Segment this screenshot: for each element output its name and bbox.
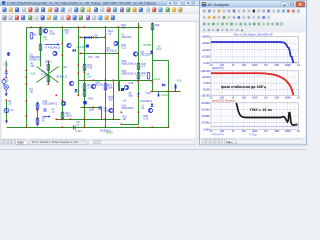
plot2 phase frame: [211, 71, 299, 96]
resistor R26: [151, 24, 154, 31]
svg-text:2SA1943: 2SA1943: [122, 36, 133, 39]
wire feedback column: [48, 62, 50, 85]
diode D2: [89, 36, 92, 39]
junction 59: [138, 127, 140, 129]
source V2: [4, 85, 8, 89]
diode D1: [84, 36, 87, 39]
junction 9: [26, 70, 28, 72]
wire input pair column: [78, 28, 80, 96]
plot2 phase curve: [211, 73, 293, 95]
wire mid bus: [79, 80, 153, 82]
plot1 gain y axis labels: [202, 35, 211, 66]
junction 36: [138, 96, 140, 98]
wire input loop: [37, 102, 39, 127]
transistor Q16: [148, 108, 152, 112]
junction 37: [152, 53, 154, 55]
junction 58: [26, 127, 28, 129]
junction 22: [84, 80, 86, 82]
resistor R8: [36, 118, 39, 125]
junction 11: [26, 84, 28, 86]
wire ground bottom rail: [7, 127, 169, 129]
AC toolbar rows: [200, 8, 306, 33]
junction 29: [105, 119, 107, 121]
svg-text:2SA1943LC: 2SA1943LC: [122, 107, 135, 110]
junction 55: [93, 80, 95, 82]
junction 41: [168, 91, 170, 93]
resistor R6: [47, 64, 50, 71]
plot3 group delay grid: [211, 103, 299, 130]
svg-text:220: 220: [65, 32, 70, 35]
svg-text:0A: 0A: [42, 120, 45, 123]
junction 1: [31, 27, 33, 29]
svg-text:100: 100: [109, 99, 114, 102]
capacitor C7: [44, 108, 46, 112]
svg-text:20.000n: 20.000n: [202, 121, 211, 125]
svg-text:F (Гц): F (Гц): [250, 132, 257, 136]
app title bar: [0, 0, 307, 6]
junction 2: [40, 27, 42, 29]
capacitor C9: [73, 125, 75, 129]
transistor Q9: [133, 52, 137, 56]
plot1 gain frame: [211, 37, 299, 64]
svg-text:0.06: 0.06: [177, 80, 182, 83]
junction 10: [26, 77, 28, 79]
junction 42: [80, 37, 82, 39]
plot3 delay curve: [236, 103, 297, 125]
wire +35V right drop: [152, 23, 154, 92]
junction 46: [56, 119, 58, 121]
svg-text:MJE15034_G: MJE15034_G: [122, 63, 137, 66]
junction 26: [105, 37, 107, 39]
plot1 gain x axis labels: [210, 63, 301, 67]
plot3 group delay x axis labels: [210, 129, 301, 133]
svg-text:10K: 10K: [242, 63, 247, 67]
transistor Q2: [67, 43, 71, 47]
svg-text:C64-DB W: C64-DB W: [141, 100, 153, 103]
transistor Q3: [43, 29, 47, 33]
junction 35: [138, 81, 140, 83]
svg-text:BD139: BD139: [96, 84, 104, 87]
junction 21: [84, 72, 86, 74]
svg-text:40.000n: 40.000n: [202, 114, 211, 118]
svg-text:0.65: 0.65: [31, 73, 36, 76]
transistor Q15: [124, 85, 128, 89]
junction 52: [62, 127, 64, 129]
transistor Q10: [61, 101, 65, 105]
app window background: [0, 0, 307, 150]
svg-text:80.000n: 80.000n: [202, 101, 211, 105]
capacitor C8: [83, 101, 86, 104]
junction 56: [56, 95, 58, 97]
svg-text:+180.000: +180.000: [200, 69, 210, 73]
plot1 zero axis: [211, 61, 299, 63]
node marker phi: [7, 52, 10, 56]
svg-text:2SC5200: 2SC5200: [141, 54, 152, 57]
resistor R7: [47, 76, 50, 83]
source V3: [4, 108, 9, 113]
svg-text:db(v(OUT)): db(v(OUT)): [212, 66, 224, 70]
AC tab bar: [201, 138, 306, 144]
junction 44: [80, 53, 82, 55]
svg-text:ph(v(OUT)) (Degrees): ph(v(OUT)) (Degrees): [212, 100, 236, 103]
junction 38: [152, 81, 154, 83]
current probe arrow: [137, 93, 139, 96]
diode D7: [174, 85, 177, 88]
transistor Q5: [114, 41, 118, 45]
wire mid column B: [105, 28, 107, 128]
junction 18: [78, 65, 80, 67]
output arrow: [43, 116, 49, 118]
junction 50: [37, 118, 39, 120]
resistor R2b: [30, 33, 33, 40]
junction 60: [152, 127, 154, 129]
junction 63: [93, 107, 95, 109]
window buttons: [281, 2, 288, 7]
resistor R2: [39, 29, 42, 36]
wire left supply drop: [26, 28, 28, 128]
ground load: [158, 92, 160, 95]
wire bias column: [40, 28, 42, 67]
capacitor C5: [99, 106, 101, 110]
svg-text:Q15: Q15: [129, 82, 134, 85]
svg-text:0.22u: 0.22u: [76, 130, 83, 133]
svg-text:68p: 68p: [129, 95, 134, 98]
svg-text:VD4.3B: VD4.3B: [77, 46, 86, 49]
svg-text:Main: Main: [17, 140, 24, 144]
svg-text:1K: 1K: [231, 63, 234, 67]
svg-text:BC546_B: BC546_B: [107, 50, 118, 53]
svg-text:R11: R11: [89, 56, 94, 59]
junction 5: [84, 27, 86, 29]
plot2 phase x axis labels: [210, 95, 301, 99]
svg-text:10K: 10K: [242, 95, 247, 99]
junction 16: [62, 100, 64, 102]
wire output diode stub: [175, 84, 177, 92]
svg-text:1M: 1M: [264, 95, 267, 99]
resistor R9: [83, 84, 86, 91]
junction 23: [84, 107, 86, 109]
plot1 gain grid: [211, 37, 299, 64]
ground V2: [5, 89, 7, 93]
wire cap row: [81, 107, 102, 109]
junction 24: [84, 119, 86, 121]
diode D4: [75, 89, 78, 92]
resistor R14: [61, 112, 64, 119]
svg-text:4R: 4R: [123, 118, 126, 121]
wire +35V top rail: [27, 27, 143, 29]
schematic page tab bar: [0, 139, 200, 145]
svg-text:MJE15034_G: MJE15034_G: [122, 73, 137, 76]
resistor R4: [39, 44, 42, 51]
svg-text:1M: 1M: [264, 63, 267, 67]
svg-text:100K: 100K: [252, 63, 258, 67]
svg-text:+24.000: +24.000: [202, 48, 211, 52]
plot2 phase y axis labels: [200, 69, 210, 98]
svg-text:0.22: 0.22: [144, 118, 149, 121]
junction 43: [93, 37, 95, 39]
svg-text:MJE15034_G: MJE15034_G: [43, 103, 58, 106]
wire output column: [138, 23, 140, 125]
toolbar row 2: [0, 14, 307, 22]
junction 47: [70, 119, 72, 121]
wire cascode stub: [119, 81, 121, 91]
junction 57: [78, 95, 80, 97]
svg-text:100.0: 100.0: [66, 115, 73, 118]
junction 64: [168, 127, 170, 129]
plot2 phase grid: [211, 71, 299, 96]
junction 17: [62, 119, 64, 121]
junction 13: [26, 116, 28, 118]
svg-text:T - A: T - A: [236, 29, 244, 33]
svg-text:10M: 10M: [274, 63, 279, 67]
svg-text:1u0R: 1u0R: [89, 109, 95, 112]
junction 28: [105, 80, 107, 82]
junction input b: [6, 77, 8, 79]
plot1 gain curve: [211, 42, 294, 63]
svg-text:0.39: 0.39: [42, 73, 47, 76]
svg-text:1.8x: 1.8x: [87, 76, 92, 79]
svg-text:100M: 100M: [285, 129, 291, 133]
svg-text:12 R.L.: 12 R.L.: [45, 61, 53, 64]
transistor Q4: [53, 51, 57, 55]
svg-text:-90.000: -90.000: [202, 87, 210, 91]
MDI child window buttons: [167, 1, 200, 5]
svg-text:100: 100: [122, 27, 127, 30]
svg-text:BC846_B: BC846_B: [57, 76, 68, 79]
svg-text:+48.000: +48.000: [202, 35, 211, 39]
junction 40: [175, 91, 177, 93]
capacitor C4: [86, 45, 89, 48]
svg-text:2.7k: 2.7k: [88, 87, 93, 90]
svg-text:1K: 1K: [231, 129, 234, 133]
svg-text:C:\MC10\DATA\Palove\VA5_no_FB_: C:\MC10\DATA\Palove\VA5_no_FB_Palove\VA5…: [7, 2, 156, 6]
svg-text:100: 100: [220, 129, 225, 133]
junction 54: [138, 112, 140, 114]
plot3 group delay frame: [211, 103, 299, 130]
AC Analysis window frame: [200, 0, 307, 145]
wire mid column A: [84, 38, 86, 128]
junction 61: [48, 61, 50, 63]
junction 25: [84, 127, 86, 129]
junction 34: [119, 90, 121, 92]
wire input link: [5, 61, 7, 69]
svg-text:1k1: 1k1: [30, 91, 35, 94]
diode D3: [73, 49, 76, 52]
wire load row: [151, 91, 181, 93]
resistor R23: [147, 73, 150, 80]
junction 53: [121, 112, 123, 114]
ground input: [5, 121, 8, 124]
diode D6: [162, 84, 165, 87]
wire cross link A: [37, 67, 59, 83]
junction 49: [37, 110, 39, 112]
wire VAS column: [62, 28, 64, 120]
svg-text:+36.000: +36.000: [202, 41, 211, 45]
diode D8: [151, 104, 154, 107]
transistor Q13: [109, 108, 113, 112]
svg-text:+0.000: +0.000: [203, 81, 211, 85]
resistor R17: [104, 84, 107, 91]
junction 33: [118, 53, 120, 55]
svg-text:VA5_no_FB_Palove_365-HDR.CIR: VA5_no_FB_Palove_365-HDR.CIR: [233, 34, 272, 37]
plot3 group delay y axis labels: [202, 101, 211, 132]
wire base row: [81, 53, 119, 55]
junction 3: [62, 27, 64, 29]
source V1: [2, 78, 6, 86]
wire input column: [6, 101, 8, 121]
junction 12: [26, 101, 28, 103]
transistor Q6: [69, 81, 73, 85]
resistor R22: [137, 73, 140, 80]
toolbar row 1: [0, 6, 307, 14]
junction 14: [62, 43, 64, 45]
svg-text:1G: 1G: [297, 129, 300, 133]
wire zobel drop: [101, 108, 103, 120]
capacitor C10: [5, 69, 8, 78]
svg-text:GD(v(OUT)): GD(v(OUT)): [212, 134, 224, 136]
svg-text:1M: 1M: [264, 129, 267, 133]
plot panel background: [201, 33, 306, 138]
wire diode row: [81, 37, 106, 39]
svg-text:AC Analysis: AC Analysis: [208, 2, 229, 7]
svg-text:0.22: 0.22: [122, 47, 127, 50]
svg-text:10K: 10K: [242, 129, 247, 133]
svg-text:Text 1, Models 1, Power Suppli: Text 1, Models 1, Power Supplies 1, Info: [32, 140, 79, 144]
resistor R10: [83, 90, 86, 97]
junction 31: [113, 80, 115, 82]
diode D5: [150, 51, 153, 54]
svg-text:+0.001: +0.001: [106, 132, 114, 135]
svg-text:10n: 10n: [95, 37, 100, 40]
svg-text:100K: 100K: [252, 95, 258, 99]
svg-text:1G: 1G: [297, 63, 300, 67]
svg-text:100M: 100M: [285, 95, 291, 99]
junction 20: [78, 95, 80, 97]
junction input a: [6, 70, 8, 72]
junction 48: [101, 107, 103, 109]
junction 39: [152, 91, 154, 93]
capacitor C6: [121, 88, 124, 91]
junction 7: [118, 27, 120, 29]
svg-text:0.65: 0.65: [4, 80, 9, 83]
wire cascode column: [118, 28, 120, 91]
svg-text:MTBA4_G: MTBA4_G: [30, 59, 41, 62]
svg-text:1.2mΩ: 1.2mΩ: [161, 94, 168, 97]
junction 27: [105, 53, 107, 55]
junction 32: [113, 119, 115, 121]
svg-text:8.45: 8.45: [88, 67, 93, 70]
transistor Q11: [91, 84, 95, 88]
svg-text:R15: R15: [89, 98, 94, 101]
junction 19: [78, 73, 80, 75]
app left frame edge: [0, 22, 2, 145]
wire output right drop: [168, 61, 170, 128]
svg-text:+7.4 BC546_B: +7.4 BC546_B: [45, 47, 61, 50]
svg-text:10M: 10M: [274, 95, 279, 99]
plot3 zero axis: [211, 126, 299, 128]
svg-text:R26: R26: [155, 24, 160, 27]
wire emitter row: [57, 119, 121, 121]
resistor R5: [36, 103, 39, 110]
junction 4: [78, 27, 80, 29]
wire cross link B: [37, 67, 59, 83]
schematic vertical scrollbar: [196, 22, 200, 139]
junction 51: [6, 100, 8, 102]
wire load corner: [122, 124, 139, 126]
junction 45: [121, 124, 123, 126]
svg-text:+90.000: +90.000: [202, 75, 211, 79]
svg-text:220n: 220n: [104, 110, 110, 113]
resistor R12: [83, 64, 86, 71]
svg-text:Main: Main: [226, 140, 233, 144]
junction 15: [62, 55, 64, 57]
svg-text:W.P: W.P: [147, 92, 152, 95]
svg-text:100k: 100k: [108, 87, 114, 90]
wire right link: [153, 60, 169, 62]
svg-text:фаза стабильна до 1МГц: фаза стабильна до 1МГц: [221, 85, 267, 89]
resistor R20: [137, 63, 140, 70]
svg-text:ГВЗ = 16 нс: ГВЗ = 16 нс: [250, 107, 273, 112]
svg-text:100M: 100M: [285, 63, 291, 67]
junction 30: [105, 127, 107, 129]
app status bar: [0, 145, 307, 150]
svg-text:+35: +35: [123, 100, 128, 103]
svg-text:10M: 10M: [274, 129, 279, 133]
svg-text:1.7A: 1.7A: [43, 39, 48, 42]
svg-text:1.2mΩ: 1.2mΩ: [153, 78, 160, 81]
svg-text:60.000n: 60.000n: [202, 107, 211, 111]
svg-text:BCP53: BCP53: [144, 44, 152, 47]
signal arrow: [45, 44, 58, 46]
junction 8: [138, 27, 140, 29]
svg-text:+12.000: +12.000: [202, 54, 211, 58]
svg-text:220p: 220p: [50, 33, 56, 36]
svg-text:560: 560: [96, 56, 101, 59]
junction 6: [105, 27, 107, 29]
AC Analysis title bar: [200, 1, 306, 8]
schematic sheet: [0, 22, 200, 139]
junction 62: [48, 84, 50, 86]
svg-text:0mV: 0mV: [157, 48, 162, 51]
svg-text:1G: 1G: [297, 95, 300, 99]
wire driver column: [113, 80, 115, 120]
